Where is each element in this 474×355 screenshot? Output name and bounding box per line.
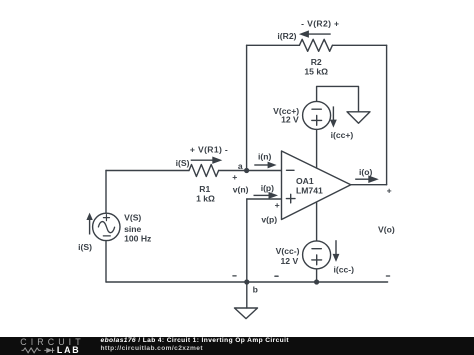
svg-text:v(n): v(n) [233, 185, 249, 195]
svg-text:V(S): V(S) [124, 213, 141, 223]
svg-text:i(n): i(n) [258, 152, 271, 162]
svg-text:i(o): i(o) [359, 167, 372, 177]
svg-text:+ V(R1) -: + V(R1) - [190, 145, 228, 155]
svg-text:R1: R1 [199, 184, 210, 194]
svg-text:R2: R2 [311, 57, 322, 67]
svg-text:i(R2): i(R2) [277, 31, 296, 41]
svg-text:i(S): i(S) [78, 242, 92, 252]
svg-text:+: + [275, 200, 280, 210]
svg-text:V(cc-): V(cc-) [276, 246, 300, 256]
svg-text:i(S): i(S) [176, 158, 190, 168]
svg-text:OA1: OA1 [296, 176, 314, 186]
svg-text:+: + [387, 185, 392, 195]
svg-text:b: b [253, 285, 258, 295]
svg-text:1 kΩ: 1 kΩ [196, 193, 215, 203]
svg-text:- V(R2) +: - V(R2) + [301, 19, 339, 29]
svg-text:LM741: LM741 [296, 186, 323, 196]
svg-text:i(p): i(p) [261, 183, 274, 193]
svg-text:+: + [232, 172, 237, 182]
svg-text:12 V: 12 V [281, 256, 299, 266]
svg-text:15 kΩ: 15 kΩ [304, 67, 328, 77]
svg-text:V(o): V(o) [378, 224, 395, 234]
svg-text:12 V: 12 V [281, 115, 299, 125]
svg-text:i(cc+): i(cc+) [331, 130, 354, 140]
svg-text:100 Hz: 100 Hz [124, 233, 151, 243]
svg-text:LAB: LAB [57, 345, 80, 355]
svg-text:a: a [238, 161, 243, 171]
svg-text:v(p): v(p) [261, 215, 277, 225]
svg-text:i(cc-): i(cc-) [334, 265, 355, 275]
